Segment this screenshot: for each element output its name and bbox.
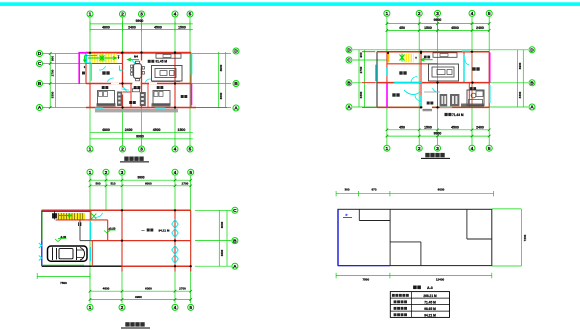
plan2 area label <box>445 113 464 117</box>
svg-text:450: 450 <box>399 125 405 129</box>
svg-text:900: 900 <box>51 56 55 61</box>
plan2 red wall stubs to left dims <box>362 52 377 108</box>
svg-text:A: A <box>234 106 238 112</box>
top cyan banner bar <box>0 2 580 6</box>
svg-text:3900: 3900 <box>518 62 522 69</box>
svg-text:A: A <box>530 105 534 111</box>
plan4 top-left roof step <box>359 209 390 220</box>
svg-text:9900: 9900 <box>135 295 142 299</box>
plan1 magenta balcony edges <box>79 52 191 105</box>
svg-text:3300: 3300 <box>359 91 363 98</box>
plan1 top dimension lines and labels <box>90 19 193 32</box>
plan4 bottom dimension line <box>336 273 492 282</box>
svg-text:4: 4 <box>174 305 177 311</box>
plan1 bed bottom-left <box>98 91 115 105</box>
svg-text:3: 3 <box>140 147 143 153</box>
plan2 right dimension line <box>518 50 524 107</box>
svg-text:5: 5 <box>189 12 192 18</box>
svg-text:1: 1 <box>386 146 389 152</box>
plan2 right axis bubbles <box>529 47 535 111</box>
svg-text:71.43 M: 71.43 M <box>452 113 464 117</box>
plan4 area table <box>390 292 449 318</box>
svg-text:4: 4 <box>174 147 177 153</box>
svg-text:3900: 3900 <box>219 64 223 71</box>
plan1 stair labels and corner dots <box>89 52 123 60</box>
plan3 horizontal grid stubs right <box>195 210 231 266</box>
plan1 door M4 swing arrow <box>128 58 140 61</box>
svg-text:2400: 2400 <box>128 25 136 29</box>
plan1 cyan door arcs <box>99 59 151 93</box>
svg-text:94.21 M: 94.21 M <box>424 313 436 317</box>
plan3 garage width dimension <box>37 273 90 285</box>
svg-text:3300: 3300 <box>220 249 224 256</box>
svg-text:1: 1 <box>89 170 92 176</box>
svg-text:P: P <box>345 213 347 217</box>
plan1 cyan landing edge <box>87 53 92 81</box>
plan1 title 二层平面 <box>120 157 149 162</box>
svg-text:3: 3 <box>436 11 439 17</box>
plan2 wall junction dots <box>420 51 474 109</box>
plan1 wall junction dots <box>121 51 176 108</box>
svg-text:2400: 2400 <box>476 26 484 30</box>
plan2 left dimension lines <box>359 50 365 107</box>
plan1 stair yellow hatch <box>92 54 117 63</box>
plan1 bathroom fixture <box>132 89 139 92</box>
svg-text:2700: 2700 <box>179 287 186 291</box>
svg-text:A: A <box>347 105 351 111</box>
svg-text:2: 2 <box>105 170 108 176</box>
plan1 top axis bubbles 1-5 <box>87 11 193 18</box>
plan1 stair direction arrow and break marker <box>88 55 117 62</box>
plan3 level mark -0.30 <box>55 235 67 242</box>
svg-text:3: 3 <box>436 146 439 152</box>
svg-text:3: 3 <box>121 170 124 176</box>
svg-text:T: T <box>118 56 120 60</box>
plan1 stair down arrow <box>83 56 97 63</box>
plan3 garage wall tick marks <box>79 222 81 226</box>
svg-text:9900: 9900 <box>434 132 442 136</box>
plan4 lower-middle roof panel <box>390 242 421 266</box>
plan1 horizontal grid lines A-D <box>43 54 231 108</box>
svg-text:-0.30: -0.30 <box>60 235 67 239</box>
svg-text:94.21 M: 94.21 M <box>159 228 170 232</box>
plan4 right dimension line <box>492 209 527 266</box>
plan3 car <box>48 246 88 261</box>
svg-text:4: 4 <box>471 11 474 17</box>
plan1 vertical grid lines 1-5 <box>90 18 190 146</box>
plan2 bottom dimension lines <box>386 125 491 137</box>
svg-text:2700: 2700 <box>182 181 189 185</box>
plan4 upper-right roof panel <box>467 209 492 239</box>
svg-text:2700: 2700 <box>51 69 55 76</box>
svg-text:4800: 4800 <box>102 25 110 29</box>
svg-text:D: D <box>38 51 42 57</box>
svg-text:2400: 2400 <box>125 128 133 132</box>
svg-text:1: 1 <box>89 305 92 311</box>
plan3 bottom dimension lines <box>89 287 192 301</box>
plan2 cyan door arcs <box>404 59 469 101</box>
svg-text:3300: 3300 <box>518 91 522 98</box>
svg-text:1500: 1500 <box>424 125 432 129</box>
svg-text:9900: 9900 <box>137 176 144 180</box>
plan1 left axis bubbles A-D <box>37 51 43 112</box>
svg-text:900: 900 <box>359 52 363 57</box>
svg-text:4800: 4800 <box>102 128 110 132</box>
svg-text:3300: 3300 <box>219 92 223 99</box>
plan1 M6 door label <box>82 65 86 75</box>
plan3 wall junction dots <box>121 209 192 267</box>
plan4 roof ridge line <box>389 209 391 265</box>
svg-text:5: 5 <box>189 170 192 176</box>
svg-text:D: D <box>530 48 534 54</box>
plan3 vertical grid lines <box>90 176 191 303</box>
plan3 title 一层平面 <box>121 322 150 328</box>
svg-text:4: 4 <box>174 12 177 18</box>
plan1 right axis bubbles <box>233 48 239 112</box>
plan3 right dimension lines <box>219 210 227 266</box>
plan1 junction dot grid2 top <box>122 52 124 54</box>
plan3 stair bottom wall <box>56 219 91 221</box>
svg-text:B: B <box>530 81 534 87</box>
plan3 area label <box>142 228 170 232</box>
svg-text:450: 450 <box>399 26 405 30</box>
plan3 level mark ±0.00 <box>104 226 116 233</box>
plan2 stair yellow hatch <box>387 54 413 63</box>
svg-text:T: T <box>415 56 417 60</box>
svg-text:B: B <box>234 81 238 87</box>
plan3 building walls <box>42 210 191 271</box>
svg-text:1500: 1500 <box>424 26 432 30</box>
svg-text:6000: 6000 <box>145 181 152 185</box>
plan2 left axis bubbles <box>346 47 352 111</box>
plan1 sofa set <box>152 66 183 82</box>
svg-text:4500: 4500 <box>451 26 459 30</box>
svg-text:D: D <box>234 49 238 55</box>
plan1 bottom dimension lines and labels <box>90 128 193 139</box>
svg-text:M4: M4 <box>134 55 138 59</box>
plan1 dining table <box>131 61 145 81</box>
plan2 sofa set <box>429 64 459 81</box>
svg-text:2: 2 <box>418 146 421 152</box>
svg-text:D: D <box>347 48 351 54</box>
plan3 garage inner wall <box>80 220 91 241</box>
svg-text:300: 300 <box>344 188 349 192</box>
plan1 terrace hatch band <box>95 109 178 113</box>
plan1 bed bottom-right <box>153 91 170 105</box>
plan2 horizontal grid lines A-D <box>353 50 528 107</box>
plan3 top axis bubbles <box>87 169 194 176</box>
svg-text:C: C <box>38 61 42 67</box>
plan1 door tags <box>118 55 139 59</box>
plan3 green cross marker <box>92 214 97 219</box>
svg-text:500: 500 <box>95 181 100 185</box>
svg-text:3: 3 <box>140 12 143 18</box>
svg-text:9900: 9900 <box>136 19 144 23</box>
plan2 top axis bubbles <box>384 10 492 17</box>
svg-text:9900: 9900 <box>136 134 144 138</box>
plan3 top dimension lines <box>89 176 192 188</box>
plan2 title 三层平面 <box>421 153 450 159</box>
plan4 table title 户型A-3 <box>413 286 433 290</box>
plan1 corridor wall <box>123 91 132 93</box>
plan2 bottom axis bubbles <box>384 145 492 152</box>
plan2 entry door opening <box>423 107 433 111</box>
plan1 desks along bottom wall <box>97 103 171 106</box>
plan1 cyan window lines <box>95 53 192 108</box>
plan1 wardrobe left <box>117 92 122 107</box>
svg-text:5: 5 <box>488 146 491 152</box>
plan2 top dimension lines <box>386 18 491 32</box>
svg-text:4: 4 <box>174 170 177 176</box>
plan4 top dimension line <box>336 188 494 197</box>
svg-text:—: — <box>142 228 145 232</box>
plan3 garage door green line <box>42 264 84 266</box>
plan2 red building walls <box>377 52 489 108</box>
svg-text:C: C <box>347 58 351 64</box>
plan2 room labels <box>392 67 479 104</box>
svg-text:A: A <box>38 105 42 111</box>
svg-text:4500: 4500 <box>451 125 459 129</box>
svg-text:12400: 12400 <box>436 278 445 282</box>
plan3 bottom axis bubbles <box>87 304 194 311</box>
plan1 right dimension lines <box>219 52 226 108</box>
plan3 hall wall <box>91 241 93 267</box>
svg-text:4800: 4800 <box>103 287 110 291</box>
plan4 blue left edge <box>338 209 390 265</box>
svg-text:91.45 M: 91.45 M <box>156 60 168 64</box>
svg-text:B: B <box>38 81 42 87</box>
svg-text:B: B <box>347 81 351 87</box>
svg-text:266.21 M: 266.21 M <box>423 294 437 298</box>
svg-text:98.65 M: 98.65 M <box>424 307 436 311</box>
plan1 door openings <box>111 61 157 95</box>
plan1 cyan landing corner <box>120 66 123 71</box>
svg-text:5: 5 <box>189 147 192 153</box>
svg-text:9900: 9900 <box>434 18 442 22</box>
svg-text:7500: 7500 <box>60 281 67 285</box>
plan2 TV cabinet <box>433 53 457 58</box>
plan4 roof outline <box>338 209 492 265</box>
svg-text:1: 1 <box>89 147 92 153</box>
plan1 living room area label <box>156 60 168 64</box>
svg-text:2: 2 <box>121 305 124 311</box>
svg-text:71.45 M: 71.45 M <box>424 301 436 305</box>
plan1 left dimension lines <box>49 52 56 109</box>
plan2 magenta and cyan window edges <box>376 51 490 107</box>
svg-text:A-3: A-3 <box>427 286 433 290</box>
plan3 blue wall liner <box>42 210 90 212</box>
svg-text:B: B <box>233 238 237 244</box>
svg-text:5: 5 <box>488 11 491 17</box>
svg-text:C: C <box>233 208 237 214</box>
plan3 cyan windows and arcs <box>39 213 178 264</box>
svg-text:4500: 4500 <box>154 25 162 29</box>
svg-text:6000: 6000 <box>145 287 152 291</box>
plan3 stair yellow hatch <box>57 213 85 220</box>
svg-text:2: 2 <box>121 12 124 18</box>
plan2 niche line <box>424 91 440 93</box>
plan4 blue level mark <box>343 213 352 218</box>
svg-text:2400: 2400 <box>476 125 484 129</box>
svg-text:1: 1 <box>89 12 92 18</box>
plan1 room labels <box>102 60 188 104</box>
plan2 vertical grid lines 1-5 <box>387 17 489 145</box>
plan1 red building walls <box>86 53 227 108</box>
svg-text:510: 510 <box>110 181 115 185</box>
svg-text:4: 4 <box>471 146 474 152</box>
svg-text:2: 2 <box>418 11 421 17</box>
svg-text:4500: 4500 <box>153 128 161 132</box>
svg-text:A: A <box>233 264 237 270</box>
svg-text:7500: 7500 <box>362 278 369 282</box>
svg-text:1: 1 <box>386 11 389 17</box>
svg-text:6000: 6000 <box>438 188 445 192</box>
plan3 right axis bubbles <box>232 207 238 270</box>
svg-text:1500: 1500 <box>178 128 186 132</box>
svg-text:5: 5 <box>189 305 192 311</box>
svg-text:1500: 1500 <box>178 25 186 29</box>
svg-text:3300: 3300 <box>51 91 55 98</box>
plan1 wardrobe right <box>140 92 146 106</box>
plan1 bottom axis bubbles 1-5 <box>87 146 193 153</box>
svg-text:670: 670 <box>371 188 376 192</box>
plan2 wardrobes <box>440 94 460 106</box>
svg-text:7200: 7200 <box>523 234 527 241</box>
svg-text:±0.00: ±0.00 <box>109 226 116 230</box>
plan2 stair arrow break marker and door label <box>387 52 433 62</box>
svg-text:3000: 3000 <box>220 221 224 228</box>
plan1 TV cabinet <box>156 54 181 58</box>
svg-text:2: 2 <box>121 147 124 153</box>
plan2 bathroom fixtures <box>461 90 484 107</box>
plan3 stair start icon <box>52 212 57 220</box>
svg-text:2700: 2700 <box>359 66 363 73</box>
